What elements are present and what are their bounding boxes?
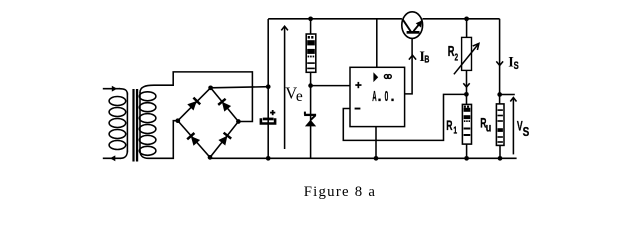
wire: AC input top lead: [103, 88, 120, 90]
node: zener reference junction: [308, 83, 313, 88]
wire: Ru top to Vs arrow top: [500, 94, 515, 96]
arrow: Is current (down chevron): [496, 61, 503, 65]
arrow: IB current into base: [409, 55, 416, 59]
diode D1 (bridge top-left): [178, 88, 211, 121]
node: R2 / R1 / feedback junction: [464, 92, 469, 97]
svg-text:0: 0: [385, 89, 389, 104]
svg-text:1: 1: [453, 124, 457, 136]
node: bus / bottom rail junction: [266, 156, 271, 161]
svg-text:Figure 8 a: Figure 8 a: [304, 184, 377, 200]
wire: R1 to bottom rail: [466, 144, 468, 158]
svg-text:S: S: [523, 126, 530, 139]
label A.O.: [372, 89, 394, 105]
transformer T core: [132, 89, 138, 162]
label IB: [419, 49, 429, 65]
label Ve: [285, 84, 303, 105]
node: bridge right AC junction: [236, 119, 241, 124]
resistor R (zener series, striped body): [306, 34, 316, 72]
svg-text:S: S: [514, 60, 519, 73]
arrow: Ve voltage indicator: [281, 26, 288, 149]
wire: AC input bottom lead: [103, 157, 121, 159]
transistor Q1 (series pass): [402, 12, 423, 39]
svg-text:.: .: [391, 89, 395, 105]
capacitor C (filter, electrolytic): [261, 110, 275, 124]
wire: resistor R to zener column: [310, 72, 312, 158]
node: rail / resistor R junction: [308, 16, 313, 21]
svg-text:e: e: [296, 88, 303, 105]
diode D2 (bridge top-right): [211, 88, 239, 122]
svg-text:R: R: [448, 43, 455, 60]
wire: rail to R2: [466, 19, 468, 38]
wire: secondary top to bridge right node (over-route): [154, 72, 252, 122]
op-amp + input marker: [355, 82, 361, 88]
wire: bottom rail: [210, 157, 517, 159]
transformer T primary winding: [109, 89, 127, 159]
node: rail / R2 junction: [464, 16, 469, 21]
wire: unregulated bus vertical (left column): [267, 19, 269, 158]
arrow: Vs voltage indicator: [510, 98, 516, 155]
label R1: [446, 118, 457, 136]
node: Ru top junction: [497, 92, 502, 97]
wire: Is branch (rail right corner down to Ru): [499, 19, 501, 106]
wire: op-amp bottom to rail: [375, 127, 377, 159]
node: R1 / rail junction: [464, 156, 469, 161]
node: bridge bottom (-) junction: [208, 155, 213, 160]
label R2: [448, 43, 459, 63]
wire: Ru to bottom rail: [499, 145, 501, 158]
label Ru: [480, 115, 491, 135]
resistor R1 (striped body): [462, 104, 471, 144]
resistor R2 (adjustable): [454, 37, 479, 74]
wire: op-amp top supply to rail: [376, 19, 378, 68]
zener diode DZ: [304, 112, 316, 127]
svg-text:B: B: [424, 53, 429, 65]
svg-text:u: u: [486, 123, 491, 135]
svg-text:A: A: [372, 89, 376, 105]
wire: op-amp output to transistor base: [405, 34, 413, 94]
wire: top supply rail: [268, 18, 499, 20]
svg-text:.: .: [378, 89, 382, 105]
op-amp U1 (A.O.) box: [350, 67, 405, 126]
op-amp gain symbol (triangle and infinity): [373, 72, 391, 82]
node: bus / bridge wire junction: [266, 84, 271, 89]
wire: rail to resistor R: [310, 19, 312, 34]
node: Ru / rail junction: [498, 156, 503, 161]
node: bridge top (+) junction: [208, 85, 213, 90]
svg-text:2: 2: [455, 51, 459, 63]
wire: R2 bottom to R1: [466, 70, 468, 104]
wire: bridge + output to filter bus: [211, 87, 269, 88]
wire: reference to op-amp + input: [311, 85, 350, 87]
op-amp - input marker: [355, 108, 361, 110]
diode D3 (bridge bottom-left): [178, 121, 210, 158]
node: bridge left AC junction: [175, 118, 180, 123]
arrow: input current direction (top, right): [112, 86, 117, 92]
wire: secondary bottom to bridge left node: [149, 121, 178, 159]
svg-text:R: R: [446, 118, 453, 134]
arrow: current through R2 (down chevron): [463, 83, 469, 87]
label IS: [508, 54, 519, 72]
node: op-amp bottom / rail junction: [374, 156, 379, 161]
transformer T secondary winding: [139, 85, 156, 158]
resistor Ru (load, ladder body): [496, 104, 504, 145]
wire: feedback (op-amp - input to R2/R1 node): [343, 94, 466, 140]
arrow: input current direction (bottom, left): [110, 155, 115, 161]
label VS: [517, 118, 530, 139]
diode D4 (bridge bottom-right): [210, 122, 238, 158]
